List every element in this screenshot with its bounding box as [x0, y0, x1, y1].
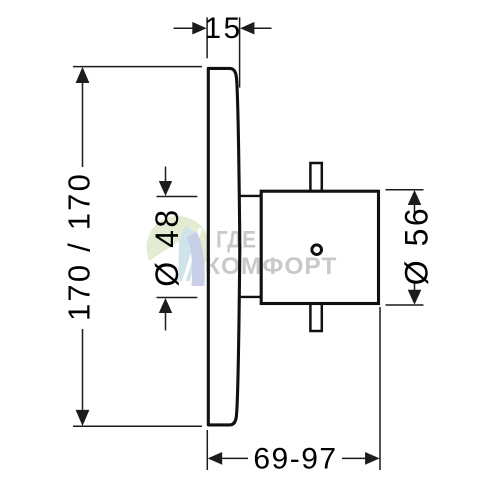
watermark logo white wedge — [149, 241, 179, 292]
dim 69-97: left extension line — [206, 430, 208, 470]
dim 69-97: left arrow — [208, 452, 248, 465]
svg-text:69-97: 69-97 — [253, 443, 337, 476]
center screw ring — [312, 245, 322, 255]
sleeve neck top line — [239, 195, 261, 197]
watermark logo white slash — [182, 228, 201, 287]
watermark logo cyan sail — [176, 226, 198, 281]
dim 48: top tick — [157, 196, 198, 198]
svg-text:170 / 170: 170 / 170 — [61, 172, 96, 321]
dim 48: top arrow — [159, 167, 172, 197]
dim 48: bottom arrow — [159, 298, 172, 331]
svg-text:ГДЕ: ГДЕ — [216, 225, 256, 253]
dim 170/170: top extension line — [73, 66, 202, 68]
dim 170/170: line segments — [82, 74, 84, 167]
valve body square — [261, 191, 378, 303]
bottom spindle stub — [310, 304, 321, 332]
svg-text:Ø 56: Ø 56 — [398, 206, 434, 285]
dim 170/170: top arrow — [76, 67, 90, 83]
dim 56: bottom tick — [386, 304, 424, 306]
svg-text:КОМФОРТ: КОМФОРТ — [205, 253, 337, 280]
dim 170/170: bottom extension line — [73, 425, 202, 427]
dim 56: top arrow — [408, 190, 422, 213]
top spindle stub — [310, 163, 321, 191]
dim 48: bottom tick — [157, 297, 198, 299]
dim 69-97: right arrow — [342, 452, 380, 465]
dim 69-97: right extension line — [379, 307, 381, 470]
watermark logo lavender swoosh — [187, 232, 205, 286]
watermark logo green disc — [147, 216, 210, 292]
dim 170/170: bottom arrow — [76, 410, 90, 426]
dim 15: left arrow — [174, 22, 207, 35]
svg-text:Ø 48: Ø 48 — [149, 207, 185, 286]
svg-text:15: 15 — [204, 12, 242, 45]
escutcheon plate outline — [208, 68, 239, 425]
sleeve neck bottom line — [239, 296, 261, 298]
dim 15: right extension line — [239, 17, 241, 87]
dim 56: top tick — [386, 189, 424, 191]
dim 15: right arrow — [240, 22, 271, 35]
dim 15: left extension line — [206, 17, 208, 58]
dim 56: bottom arrow — [408, 283, 422, 305]
